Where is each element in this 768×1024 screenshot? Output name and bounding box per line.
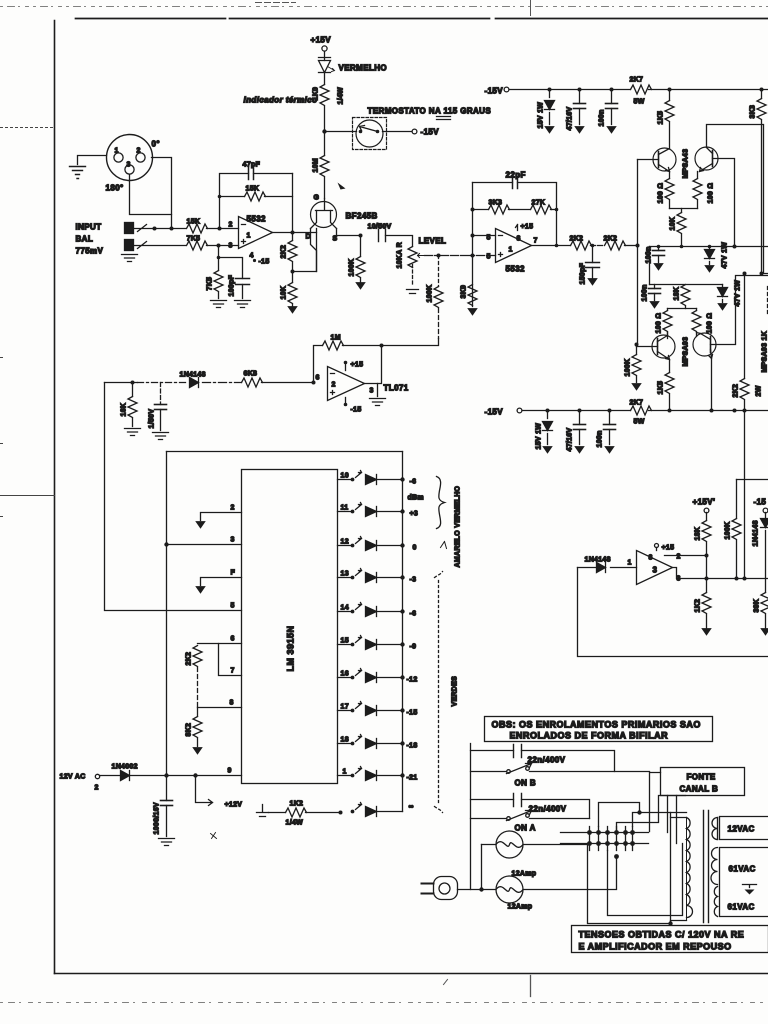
svg-text:10M: 10M: [313, 158, 320, 173]
node +15V terminal: [311, 36, 332, 58]
connector input jack: [125, 223, 134, 251]
ground 100n bottom: [605, 447, 614, 454]
ground 16K: [125, 429, 141, 436]
svg-text:12Amp: 12Amp: [508, 904, 533, 911]
svg-text:5532: 5532: [247, 215, 267, 224]
LED row pin10: [338, 471, 417, 486]
svg-text:10/50V: 10/50V: [368, 224, 392, 231]
svg-text:15V 1W: 15V 1W: [536, 423, 543, 450]
wire pin3: [167, 537, 242, 545]
diode 1N4002: [112, 764, 138, 781]
svg-text:indicador térmico: indicador térmico: [244, 96, 318, 105]
resistor 2K7 5W bottom: [630, 400, 652, 426]
ground pin2: [196, 522, 205, 529]
svg-text:8: 8: [230, 700, 234, 707]
svg-text:-15V: -15V: [485, 87, 504, 96]
svg-text:VERDES: VERDES: [452, 676, 459, 707]
svg-text:15K: 15K: [246, 186, 260, 193]
svg-text:100K: 100K: [725, 522, 732, 540]
svg-text:ON A: ON A: [515, 824, 536, 833]
ground zener rowA: [705, 266, 714, 273]
svg-text:-9: -9: [410, 644, 417, 651]
wire right edge vertical: [744, 411, 746, 579]
wire U2 noninv input: [473, 235, 496, 237]
svg-text:3: 3: [653, 566, 658, 575]
resistor 1K5 top: [658, 90, 675, 149]
svg-text:-12: -12: [407, 677, 418, 684]
node Q3 base: [635, 343, 639, 347]
resistor 3K9: [461, 285, 478, 306]
node thermostat junction: [322, 129, 326, 133]
diode zener 47V 1W rowA: [705, 242, 729, 269]
diode zener 15V 1W top: [538, 90, 555, 129]
wire bias row B: [650, 284, 723, 286]
capacitor 47/16V top: [567, 90, 586, 131]
capacitor 150pF: [580, 246, 600, 285]
wire bottom rail: [523, 409, 768, 413]
svg-text:12V AC: 12V AC: [60, 774, 86, 781]
resistor 100K base gnd: [625, 345, 642, 383]
page artifacts left edge: [1, 128, 56, 517]
svg-text:2K2: 2K2: [604, 236, 618, 243]
wire U3 pin2 row: [665, 554, 709, 558]
ground 100n rowB: [650, 302, 659, 309]
wire U1 output: [273, 231, 317, 235]
svg-text:3: 3: [229, 243, 233, 250]
wire lm3915 outer box: [164, 452, 402, 778]
svg-text:100 Ω: 100 Ω: [708, 183, 715, 204]
svg-text:E AMPLIFICADOR EM REPOUSO: E AMPLIFICADOR EM REPOUSO: [579, 942, 732, 952]
resistor 100K detector feed: [383, 256, 444, 346]
LED row pin17: [338, 702, 418, 717]
svg-text:14: 14: [341, 605, 349, 612]
svg-text:INPUT: INPUT: [76, 223, 102, 232]
wire U2 output row: [532, 244, 571, 248]
svg-text:16: 16: [341, 671, 349, 678]
svg-text:1N4148: 1N4148: [180, 372, 206, 379]
ground 39K: [761, 629, 768, 636]
svg-text:47V 1W: 47V 1W: [722, 242, 729, 269]
transformer T1 secondaries: [711, 818, 718, 917]
svg-text:1/50V: 1/50V: [149, 409, 156, 429]
ground 10K: [288, 307, 297, 314]
svg-text:11: 11: [341, 505, 349, 512]
ground 7K5: [211, 301, 227, 308]
wire pin7 gnd: [201, 570, 242, 586]
svg-text:2: 2: [231, 505, 235, 512]
svg-text:∞: ∞: [409, 804, 414, 811]
resistor 27K feedback: [531, 200, 559, 246]
label 12VAC box: [718, 817, 768, 840]
svg-text:ON B: ON B: [515, 779, 537, 788]
LED row pin14: [338, 603, 417, 618]
svg-text:1: 1: [628, 560, 632, 567]
svg-text:MPSA43: MPSA43: [683, 149, 690, 179]
svg-text:-15: -15: [754, 498, 767, 507]
svg-text:+15: +15: [662, 545, 675, 552]
wire input row2: [134, 242, 239, 249]
transformer T1 primary: [671, 818, 693, 921]
node +12V tap: [196, 776, 243, 809]
op-amp U3 comparator: [628, 551, 681, 585]
node U3 +15: [655, 544, 675, 552]
wire pin6 pin7 tie: [198, 636, 242, 676]
op-amp U2 5532: [487, 224, 538, 274]
svg-text:18K: 18K: [695, 527, 702, 541]
resistor 1K5 bottom: [658, 360, 675, 411]
ground 1K2: [702, 629, 711, 636]
svg-text:0: 0: [413, 545, 417, 552]
svg-text:+12V: +12V: [225, 802, 243, 809]
svg-text:MPSA93: MPSA93: [683, 337, 690, 367]
capacitor 10/50V coupling: [379, 230, 413, 247]
capacitor 1000/16V: [154, 776, 173, 837]
svg-text:100n: 100n: [599, 109, 606, 126]
wire right edge dashes: [767, 287, 768, 314]
svg-text:1K5: 1K5: [658, 111, 665, 125]
svg-text:2: 2: [332, 382, 336, 389]
wire primary top: [599, 803, 687, 827]
svg-text:18: 18: [341, 737, 349, 744]
resistor 18K divider: [695, 513, 712, 593]
svg-text:1: 1: [509, 247, 513, 254]
node -15V top rail terminal: [485, 87, 509, 96]
svg-text:3: 3: [370, 388, 374, 395]
label TENSOES box: [572, 926, 768, 953]
svg-text:100n: 100n: [597, 430, 604, 447]
wire to thermostat: [325, 131, 357, 133]
svg-text:47/16V: 47/16V: [567, 427, 574, 451]
wire U2 input vertical: [471, 183, 475, 307]
svg-text:+15V': +15V': [693, 498, 716, 507]
wire jfet source: [337, 229, 363, 238]
svg-text:1N4148: 1N4148: [753, 520, 760, 546]
ground under jack: [122, 255, 138, 262]
svg-text:2W: 2W: [756, 385, 763, 396]
node +15V' terminal: [693, 498, 716, 513]
ground 100pF: [235, 301, 251, 308]
svg-text:15K: 15K: [187, 219, 201, 226]
svg-text:6: 6: [316, 375, 320, 382]
wire Q1 base from driver: [637, 160, 639, 345]
resistor 7K5 input: [187, 236, 208, 251]
svg-text:F: F: [231, 570, 236, 577]
svg-text:+3: +3: [410, 511, 419, 518]
node U4 -15: [344, 398, 362, 414]
LED vermelho D1: [319, 58, 388, 85]
label FONTE CANAL B box: [661, 768, 745, 796]
svg-text:ENROLADOS DE FORMA BIFILAR: ENROLADOS DE FORMA BIFILAR: [510, 731, 669, 741]
label XLR pins: [106, 140, 160, 193]
wire wiper row: [425, 254, 496, 258]
svg-text:4: 4: [250, 253, 254, 260]
svg-text:12Amp: 12Amp: [512, 871, 537, 878]
resistor 16K: [121, 383, 138, 427]
capacitor 47/16V bottom: [567, 411, 586, 452]
svg-text:S: S: [333, 236, 338, 243]
svg-text:5: 5: [487, 254, 491, 261]
frame bottom border: [55, 973, 768, 975]
wire rectifier input row: [105, 381, 316, 385]
svg-text:LM 3915N: LM 3915N: [286, 625, 296, 671]
svg-text:+15V: +15V: [311, 36, 332, 45]
LED infinity row: [351, 803, 403, 817]
svg-text:2K2: 2K2: [281, 245, 288, 259]
svg-text:1M: 1M: [331, 335, 341, 342]
ground 150pF: [588, 279, 597, 286]
ground zener rowB: [718, 304, 727, 311]
svg-text:39K: 39K: [754, 599, 761, 613]
svg-text:dBm: dBm: [408, 495, 424, 502]
svg-text:2: 2: [137, 148, 141, 155]
svg-text:BF245B: BF245B: [346, 212, 378, 221]
svg-text:1N4148: 1N4148: [585, 557, 611, 564]
svg-text:22n/400V: 22n/400V: [528, 756, 566, 765]
wire comparator loop: [578, 568, 768, 657]
svg-text:2K7: 2K7: [630, 400, 644, 407]
ground 1/50V: [153, 433, 169, 440]
resistor 100R right top: [693, 172, 715, 209]
svg-text:15V 1W: 15V 1W: [538, 102, 545, 129]
svg-text:CANAL B: CANAL B: [680, 785, 719, 794]
capacitor 100pF: [219, 258, 250, 299]
svg-text:-3: -3: [410, 577, 417, 584]
svg-text:12: 12: [341, 539, 349, 546]
svg-text:-6: -6: [410, 479, 417, 486]
diode 1N4148 right edge: [753, 513, 768, 579]
ground cap bottom: [575, 447, 584, 454]
svg-text:16K: 16K: [121, 403, 128, 417]
label INPUT BAL 775mV: [76, 223, 104, 256]
op-amp U4 TL071: [316, 367, 409, 401]
capacitor 100n top: [599, 90, 618, 127]
resistor 15K feedback: [245, 186, 266, 202]
diode 1N4148 comparator input: [578, 557, 637, 573]
resistor 2K2 out a: [570, 236, 605, 251]
label arrow amarelo: [441, 542, 447, 549]
capacitor 100n bottom: [597, 411, 616, 448]
svg-text:100n: 100n: [642, 284, 649, 301]
ground pin7: [196, 587, 205, 594]
svg-text:2K7: 2K7: [630, 77, 644, 84]
wire U3 output row: [673, 568, 768, 581]
node -15 terminal: [754, 498, 768, 513]
fuse F1: [482, 831, 590, 890]
svg-text:1000/16V: 1000/16V: [154, 802, 161, 834]
node row2 junction: [217, 244, 221, 248]
wire Q4 emitter to rail: [711, 359, 713, 411]
LED row pin12: [338, 537, 417, 552]
wire led bus: [402, 452, 404, 812]
ground zener top: [545, 127, 554, 134]
resistor 2K2 output: [281, 233, 298, 272]
wire pin8: [198, 700, 242, 708]
svg-text:100 Ω: 100 Ω: [707, 313, 714, 334]
svg-text:-21: -21: [407, 775, 418, 782]
wire U1 fb row2: [218, 195, 293, 199]
svg-text:2K2: 2K2: [186, 652, 193, 666]
ground 100n rowA: [654, 264, 663, 271]
svg-text:7: 7: [231, 668, 235, 675]
transistor Q2 MPSA43: [695, 147, 735, 247]
svg-text:10K: 10K: [670, 217, 677, 231]
wire pin2 gnd: [201, 505, 242, 521]
diode 1N4148: [180, 372, 206, 388]
svg-text:VERMELHO: VERMELHO: [339, 64, 388, 73]
resistor 1K2 divider: [695, 593, 712, 629]
svg-text:10KA R: 10KA R: [397, 242, 404, 268]
ground 100K source: [356, 283, 365, 290]
svg-text:10: 10: [341, 473, 349, 480]
svg-text:150pF: 150pF: [580, 262, 587, 284]
svg-text:18K: 18K: [674, 287, 681, 301]
ground zener bottom: [543, 447, 552, 454]
frame top border: [76, 18, 768, 20]
node junction matrix: [561, 827, 649, 859]
resistor 100R right bot: [692, 309, 714, 337]
svg-text:7: 7: [534, 238, 538, 245]
svg-text:100 Ω: 100 Ω: [656, 313, 663, 334]
svg-text:5532: 5532: [506, 265, 526, 274]
capacitor 100n rowB: [642, 284, 661, 301]
wire AC row1: [471, 751, 615, 772]
diode zener 47V 1W rowB: [718, 280, 742, 307]
svg-text:1K5: 1K5: [658, 381, 665, 395]
svg-text:1: 1: [115, 148, 119, 155]
svg-text:2K2: 2K2: [570, 236, 584, 243]
resistor 100K ref: [725, 480, 768, 579]
svg-text:3: 3: [231, 537, 235, 544]
wire top rail: [510, 88, 768, 92]
ground U4 pin3: [370, 384, 386, 406]
svg-text:6: 6: [231, 636, 235, 643]
capacitor 1/50V: [149, 383, 167, 431]
svg-text:3K3: 3K3: [489, 200, 503, 207]
svg-text:9: 9: [228, 768, 232, 775]
resistor 2K2 2W: [733, 272, 763, 411]
op-amp U5 LM3915N: [242, 470, 338, 784]
resistor 3K3 feedback: [473, 200, 531, 215]
ground 100n top: [607, 127, 616, 134]
resistor 8K2 ref: [186, 708, 203, 747]
svg-text:10K: 10K: [281, 286, 288, 300]
svg-text:8K2: 8K2: [186, 723, 193, 737]
svg-text:47pF: 47pF: [243, 162, 261, 169]
wire thermostat to -15V: [383, 128, 440, 137]
svg-text:100K: 100K: [349, 259, 356, 277]
transistor Q1 MPSA43: [638, 148, 677, 172]
wire jfet drain down: [311, 229, 317, 272]
LED row pin11: [338, 503, 419, 518]
svg-text:47/16V: 47/16V: [567, 106, 574, 130]
resistor 1K0 1/4W: [313, 85, 345, 132]
svg-text:-15: -15: [407, 710, 418, 717]
svg-text:0°: 0°: [152, 140, 160, 149]
resistor 1K2 lamp: [257, 801, 343, 827]
capacitor 47pF: [243, 162, 293, 180]
ground cap top: [575, 127, 584, 134]
svg-text:+15: +15: [351, 362, 364, 369]
svg-text:61VAC: 61VAC: [728, 903, 755, 912]
switch ON B: [471, 764, 650, 788]
capacitor 22n/400V b: [514, 745, 566, 765]
resistor 15K input: [187, 219, 208, 234]
wire XLR pin2 right: [152, 158, 172, 229]
wire emitters join: [670, 208, 698, 210]
svg-text:TERMOSTATO NA 115 GRAUS: TERMOSTATO NA 115 GRAUS: [368, 107, 492, 116]
svg-text:MPSA93 1K: MPSA93 1K: [762, 331, 768, 373]
svg-text:BAL: BAL: [76, 235, 94, 244]
transformer T1 core: [704, 811, 709, 923]
svg-text:12VAC: 12VAC: [728, 825, 755, 834]
node -15V bottom rail terminal: [485, 408, 522, 417]
svg-text:TENSOES OBTIDAS C/ 120V NA RE: TENSOES OBTIDAS C/ 120V NA RE: [579, 930, 745, 940]
svg-text:100 Ω: 100 Ω: [658, 183, 665, 204]
ground input-left: [70, 156, 107, 179]
LED row pin13: [338, 569, 417, 584]
wire to pin5 lm3915: [105, 383, 242, 611]
svg-text:2: 2: [95, 785, 99, 792]
wire fonte feeds: [617, 773, 686, 844]
frame left border: [54, 21, 56, 974]
svg-text:1K2: 1K2: [695, 599, 702, 613]
svg-text:2K2: 2K2: [733, 384, 740, 398]
node 12VAC input: [60, 774, 100, 792]
svg-text:2: 2: [229, 222, 233, 229]
LED row pin16: [338, 669, 418, 684]
resistor 7K5 to gnd: [207, 246, 224, 299]
wire AC bus left: [470, 744, 472, 890]
capacitor 22pF: [473, 171, 557, 210]
diode zener 15V 1W bottom: [536, 411, 553, 450]
wire AC row3: [471, 800, 590, 819]
ground 3K9: [468, 309, 477, 316]
svg-text:-15V: -15V: [421, 128, 440, 137]
thermostat S1: [353, 118, 387, 150]
wire U4 output: [365, 344, 384, 384]
label brace red: [437, 477, 445, 529]
node 2K2/10K: [291, 229, 317, 274]
capacitor 100n rowA: [646, 246, 665, 263]
fuse F2: [458, 857, 617, 911]
svg-text:-15V: -15V: [485, 408, 504, 417]
svg-text:5W: 5W: [634, 99, 645, 106]
ground 100K base: [632, 384, 641, 391]
svg-text:FONTE: FONTE: [687, 773, 716, 782]
LED row pin15: [338, 636, 417, 651]
svg-text:-18: -18: [407, 743, 418, 750]
svg-text:8: 8: [517, 236, 521, 243]
wire input row1: [134, 225, 239, 232]
stray arrow mark: [338, 183, 346, 190]
resistor 18K rowB: [674, 285, 691, 309]
ground secondary center: [743, 885, 757, 895]
node row1 junctions: [153, 227, 222, 231]
connector AC plug: [422, 877, 458, 900]
svg-text:61VAC: 61VAC: [729, 865, 756, 874]
resistor 2K7 5W top: [630, 77, 652, 106]
svg-text:3: 3: [127, 162, 131, 169]
svg-text:180°: 180°: [106, 184, 124, 193]
transistor Q3 MPSA93: [637, 333, 676, 360]
svg-text:15: 15: [341, 638, 349, 645]
wire Q2 collector top: [707, 125, 768, 274]
capacitor 22n/400V a: [514, 794, 567, 814]
svg-text:-6: -6: [410, 611, 417, 618]
svg-text:3K3: 3K3: [750, 105, 757, 119]
svg-text:1N4002: 1N4002: [112, 764, 138, 771]
resistor 10M: [313, 132, 330, 199]
